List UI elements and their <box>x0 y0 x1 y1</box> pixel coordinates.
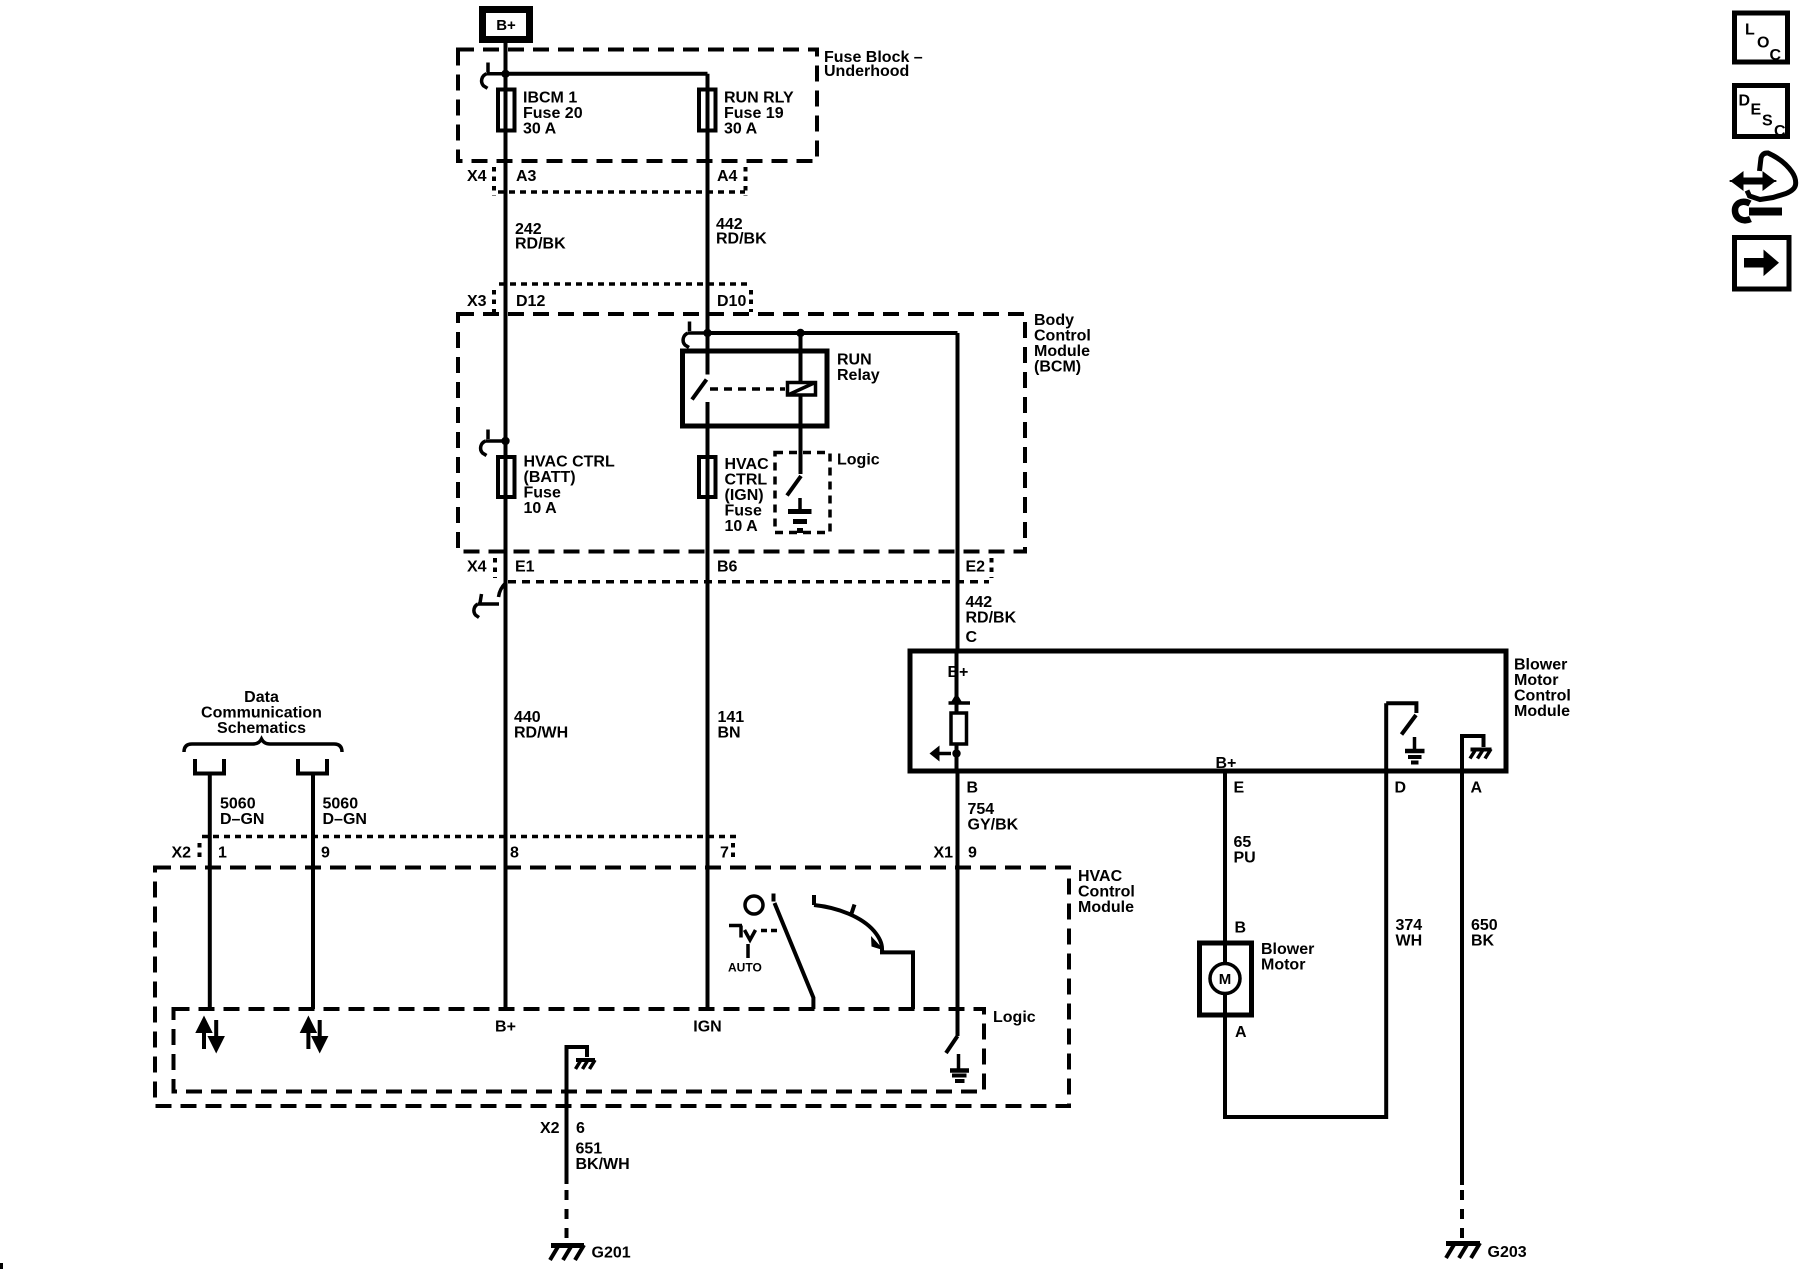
svg-text:RD/BK: RD/BK <box>716 231 767 248</box>
svg-text:65: 65 <box>1234 834 1252 851</box>
svg-text:Motor: Motor <box>1514 672 1558 689</box>
svg-text:Control: Control <box>1514 688 1571 705</box>
svg-text:Fuse: Fuse <box>524 485 561 502</box>
svg-text:D: D <box>1395 780 1407 797</box>
svg-text:5060: 5060 <box>220 796 256 813</box>
svg-text:X4: X4 <box>467 559 487 576</box>
svg-text:Fuse 20: Fuse 20 <box>523 105 583 122</box>
svg-text:Underhood: Underhood <box>824 63 909 80</box>
svg-text:754: 754 <box>968 801 995 818</box>
connector row X2 / 1 9 8 7 <box>172 837 741 862</box>
svg-text:B+: B+ <box>495 1019 516 1036</box>
svg-text:IGN: IGN <box>693 1019 721 1036</box>
wire: pin D to motor return (374 WH) <box>1384 771 1388 1119</box>
connector row X3 / D12 / D10 <box>467 284 752 312</box>
svg-text:G203: G203 <box>1488 1244 1527 1261</box>
svg-text:Schematics: Schematics <box>217 720 306 737</box>
ground G201 <box>550 1245 631 1262</box>
wire: pin A to G203 (650 BK) <box>1460 771 1464 1185</box>
connector row X4 / E1 / B6 / E2 <box>467 558 992 582</box>
connector row X4 / A3 / A4 <box>467 167 746 196</box>
HVAC Control Module dashed box <box>155 868 1069 1107</box>
svg-text:C: C <box>1774 123 1786 140</box>
svg-text:Control: Control <box>1078 884 1135 901</box>
wire: pin B to HVAC X1 (754 GY/BK) <box>956 771 960 1036</box>
svg-text:Module: Module <box>1034 343 1090 360</box>
terminal to data schematic (left) <box>193 759 226 774</box>
fuse RUN RLY Fuse 19 30A <box>699 90 794 138</box>
wire: pin D drop inside module <box>1384 703 1388 771</box>
svg-text:RUN: RUN <box>837 352 872 369</box>
svg-text:(IGN): (IGN) <box>725 487 764 504</box>
connector pigtail hook at fuse block feed <box>482 63 506 89</box>
svg-text:A: A <box>1471 780 1483 797</box>
svg-text:7: 7 <box>720 845 729 862</box>
svg-text:D12: D12 <box>516 293 545 310</box>
relay actuation dashed link <box>710 387 785 391</box>
wire: 650 BK dashed to ground <box>1460 1190 1464 1238</box>
node: junction at B+ feed <box>501 70 509 78</box>
wire: pin E to blower motor (65 PU) <box>1223 771 1227 941</box>
HVAC internal ground elbow at pin 6 <box>567 1047 588 1184</box>
HVAC selector dial arc <box>814 895 913 1009</box>
svg-text:E2: E2 <box>966 559 986 576</box>
connector pigtail hook at BATT fuse <box>481 430 506 456</box>
wire: relay output to B6 <box>706 402 710 1009</box>
Body Control Module (BCM) dashed box <box>458 314 1025 552</box>
svg-text:5060: 5060 <box>323 796 359 813</box>
svg-text:Logic: Logic <box>993 1009 1036 1026</box>
wire: motor A down and across to D wire <box>1225 1015 1386 1117</box>
svg-text:D–GN: D–GN <box>220 811 264 828</box>
svg-text:(BCM): (BCM) <box>1034 359 1081 376</box>
HVAC selector switch blade <box>774 894 814 1010</box>
svg-text:Communication: Communication <box>201 705 322 722</box>
svg-text:Body: Body <box>1034 312 1074 329</box>
data arrows pair 1 <box>199 1020 222 1049</box>
svg-text:D–GN: D–GN <box>323 811 367 828</box>
ground G203 <box>1446 1243 1527 1261</box>
node: junction above BATT fuse <box>501 437 509 445</box>
fuse IBCM 1 Fuse 20 30A <box>498 90 583 138</box>
svg-text:B: B <box>967 780 979 797</box>
wire: E2 to blower module pin C (right vertical) <box>956 333 960 651</box>
icon forward arrow box <box>1735 238 1790 290</box>
connector pigtail hook at E1 <box>474 583 506 618</box>
Blower Motor Control Module box <box>910 651 1506 771</box>
svg-text:374: 374 <box>1396 917 1423 934</box>
BCM Logic dashed box <box>775 453 830 533</box>
svg-text:C: C <box>1770 47 1782 64</box>
svg-text:X2: X2 <box>172 845 192 862</box>
earth ground in BCM logic <box>788 498 812 531</box>
wire: RUN RLY fuse drop (second vertical, upper part) <box>706 74 710 375</box>
icon LOC box <box>1735 13 1788 64</box>
node: junction at relay coil <box>796 329 804 337</box>
node: junction at D10 <box>703 329 711 337</box>
svg-text:650: 650 <box>1471 917 1498 934</box>
relay coil <box>788 383 816 396</box>
svg-text:9: 9 <box>321 845 330 862</box>
Data Communication Schematics callout <box>184 689 342 752</box>
svg-text:B: B <box>1235 920 1247 937</box>
icon harness routing squiggle <box>1732 153 1796 220</box>
svg-text:B+: B+ <box>496 17 516 34</box>
svg-text:BK: BK <box>1471 933 1495 950</box>
svg-text:D: D <box>1739 93 1751 110</box>
wire: serial data 1 <box>208 775 212 1009</box>
wire: B+ feed down to HVAC module pin 8 (left vertical) <box>504 42 508 1009</box>
HVAC fan knob indicator circle <box>745 896 763 914</box>
svg-text:10 A: 10 A <box>524 500 558 517</box>
svg-text:Blower: Blower <box>1261 941 1314 958</box>
terminal to data schematic (right) <box>296 759 329 774</box>
RUN Relay box <box>683 351 828 426</box>
svg-text:IBCM 1: IBCM 1 <box>523 90 577 107</box>
svg-text:BN: BN <box>718 725 741 742</box>
svg-text:X2: X2 <box>540 1120 560 1137</box>
svg-text:30 A: 30 A <box>523 121 557 138</box>
svg-text:Module: Module <box>1078 899 1134 916</box>
svg-text:1: 1 <box>218 845 227 862</box>
svg-text:Data: Data <box>244 689 279 706</box>
Blower Motor box <box>1200 920 1315 1042</box>
svg-text:RD/BK: RD/BK <box>515 236 566 253</box>
svg-text:L: L <box>1745 22 1755 39</box>
relay switch blade <box>692 380 707 400</box>
HVAC knob detent symbol <box>729 926 777 959</box>
svg-text:442: 442 <box>966 594 993 611</box>
svg-text:WH: WH <box>1396 933 1423 950</box>
svg-text:AUTO: AUTO <box>728 961 762 975</box>
svg-text:Blower: Blower <box>1514 657 1567 674</box>
svg-text:Control: Control <box>1034 328 1091 345</box>
svg-text:651: 651 <box>576 1141 603 1158</box>
module internal switch to ground at pin D <box>1386 703 1424 762</box>
svg-text:Motor: Motor <box>1261 957 1305 974</box>
svg-text:8: 8 <box>510 845 519 862</box>
svg-text:GY/BK: GY/BK <box>968 817 1019 834</box>
svg-text:(BATT): (BATT) <box>524 469 576 486</box>
svg-text:C: C <box>966 629 978 646</box>
svg-text:B+: B+ <box>1216 755 1237 772</box>
svg-text:A3: A3 <box>516 168 537 185</box>
svg-text:Fuse 19: Fuse 19 <box>724 105 784 122</box>
battery feed B+ box <box>483 10 530 40</box>
svg-text:E: E <box>1234 780 1245 797</box>
HVAC logic switch to ground at X1 <box>946 1036 958 1053</box>
svg-text:A4: A4 <box>717 168 738 185</box>
module internal supply element at pin C <box>930 651 971 771</box>
svg-text:Fuse: Fuse <box>725 503 762 520</box>
icon DESC box <box>1735 86 1788 141</box>
svg-text:X1: X1 <box>934 845 954 862</box>
page corner mark <box>0 1263 3 1269</box>
svg-text:440: 440 <box>514 709 541 726</box>
wire: 651 dashed to ground <box>565 1190 569 1238</box>
wire: serial data 9 <box>311 775 315 1009</box>
svg-text:O: O <box>1757 35 1769 52</box>
earth ground in HVAC logic <box>950 1054 969 1081</box>
connector pigtail hook at BCM feed <box>683 322 707 348</box>
svg-text:RUN RLY: RUN RLY <box>724 90 794 107</box>
svg-text:Relay: Relay <box>837 367 880 384</box>
svg-text:141: 141 <box>718 709 745 726</box>
module internal chassis ground at pin A <box>1462 736 1492 771</box>
svg-text:9: 9 <box>968 845 977 862</box>
svg-text:Module: Module <box>1514 703 1570 720</box>
svg-text:X4: X4 <box>467 168 487 185</box>
svg-text:HVAC: HVAC <box>1078 868 1123 885</box>
Fuse Block - Underhood dashed box <box>458 50 817 162</box>
svg-text:M: M <box>1219 971 1232 988</box>
svg-text:HVAC CTRL: HVAC CTRL <box>524 454 615 471</box>
svg-text:BK/WH: BK/WH <box>576 1156 630 1173</box>
svg-text:B6: B6 <box>717 559 738 576</box>
wire: coil feed from junction <box>799 333 803 382</box>
HVAC Logic dashed box <box>174 1009 985 1092</box>
svg-text:D10: D10 <box>717 293 746 310</box>
svg-text:PU: PU <box>1234 850 1256 867</box>
wire: BCM top interconnect D10 to E2 drop <box>708 331 958 335</box>
svg-text:HVAC: HVAC <box>725 456 770 473</box>
svg-text:30 A: 30 A <box>724 121 758 138</box>
wire: fuse block top interconnect <box>506 72 708 76</box>
svg-text:X3: X3 <box>467 293 487 310</box>
svg-text:A: A <box>1235 1024 1247 1041</box>
svg-text:RD/BK: RD/BK <box>966 610 1017 627</box>
fuse HVAC CTRL (IGN) 10A <box>699 456 769 535</box>
svg-text:E: E <box>1751 102 1762 119</box>
data arrows pair 2 <box>303 1020 325 1049</box>
svg-text:E1: E1 <box>515 559 535 576</box>
svg-text:S: S <box>1762 113 1773 130</box>
logic switch blade <box>787 476 801 496</box>
svg-text:RD/WH: RD/WH <box>514 725 568 742</box>
svg-text:CTRL: CTRL <box>725 472 768 489</box>
wire: coil to logic <box>799 396 803 474</box>
fuse HVAC CTRL (BATT) 10A <box>498 454 615 518</box>
svg-text:10 A: 10 A <box>725 518 759 535</box>
svg-text:Logic: Logic <box>837 452 880 469</box>
svg-text:G201: G201 <box>592 1245 631 1262</box>
svg-text:6: 6 <box>576 1120 585 1137</box>
chassis ground symbol in HVAC <box>576 1060 596 1069</box>
